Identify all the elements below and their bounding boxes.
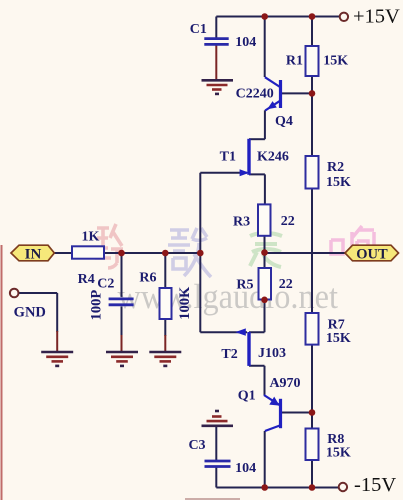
svg-text:IN: IN xyxy=(25,246,42,262)
wire R4 to gate node xyxy=(104,252,200,254)
terminal -15V xyxy=(339,483,347,491)
svg-text:C3: C3 xyxy=(188,438,205,453)
node top rail / R1 xyxy=(309,13,316,20)
resistor R8 15K xyxy=(306,429,319,461)
resistor R4 1K (horizontal) xyxy=(72,246,104,258)
svg-text:15K: 15K xyxy=(323,54,348,69)
wire R6 stem bottom xyxy=(164,319,166,336)
wire top rail +15V xyxy=(216,16,339,18)
svg-text:GND: GND xyxy=(14,305,46,321)
wire R3 bottom to R5 top xyxy=(264,236,266,268)
wire Q4 emitter vertical to T1 drain xyxy=(264,110,266,139)
watermark chinese glyph 1 (pink) xyxy=(95,224,123,268)
node Q4 base / R1-R2 xyxy=(309,90,316,97)
node output center R3-R5 xyxy=(261,249,268,256)
svg-text:15K: 15K xyxy=(326,175,351,190)
wire GND ground lead (maroon) xyxy=(56,331,58,351)
wire R2 bottom to R7 top xyxy=(311,189,313,314)
svg-text:R3: R3 xyxy=(233,215,250,230)
wire C2 stem bottom xyxy=(121,307,123,337)
wire R8 bottom to rail xyxy=(311,460,313,488)
left edge red artifact line xyxy=(1,245,3,500)
svg-text:R2: R2 xyxy=(327,160,344,175)
node bottom rail / R8 xyxy=(309,484,316,491)
wire Q1 base xyxy=(281,412,312,414)
JFET T1 K246 (N-channel) xyxy=(240,139,250,177)
svg-text:+15V: +15V xyxy=(353,6,400,28)
ground (C2) xyxy=(106,352,138,366)
wire Q4 collector vertical xyxy=(264,17,266,78)
svg-text:-15V: -15V xyxy=(354,474,396,496)
wire gate column xyxy=(199,173,201,332)
svg-text:15K: 15K xyxy=(326,445,351,460)
node input / gate column xyxy=(197,250,204,257)
svg-text:R5: R5 xyxy=(236,277,253,292)
wire C1 stem top xyxy=(215,17,217,38)
wire R5 bottom to T2 top tap xyxy=(249,300,265,333)
wire C1 to ground (maroon) xyxy=(215,46,217,80)
resistor R5 22 xyxy=(259,268,272,300)
ground (C3, inverted) xyxy=(202,411,234,426)
ground (GND terminal) xyxy=(41,352,73,366)
svg-text:1K: 1K xyxy=(81,229,99,244)
svg-text:C2: C2 xyxy=(97,277,114,292)
node R5 bottom / T2 xyxy=(261,297,268,304)
wire C3 stem bottom xyxy=(215,468,217,488)
wire R6 stem top xyxy=(164,253,166,288)
wire IN tag to R4 xyxy=(55,252,73,254)
resistor R2 15K xyxy=(306,156,319,189)
wire output node to OUT tag xyxy=(265,252,346,254)
svg-text:Q1: Q1 xyxy=(238,389,256,404)
node bottom rail / Q1 collector xyxy=(261,484,268,491)
wire T1 drain tap xyxy=(249,138,265,140)
svg-text:R6: R6 xyxy=(139,270,156,285)
node Q1 base / R7-R8 xyxy=(309,409,316,416)
watermark chinese glyph 4 (magenta) xyxy=(331,226,374,260)
tag IN xyxy=(11,245,54,262)
capacitor C3 104 xyxy=(205,461,231,467)
transistor Q4 C2240 (NPN) xyxy=(265,77,281,110)
node top rail / Q4 collector xyxy=(261,13,268,20)
resistor R7 15K xyxy=(306,313,319,345)
svg-text:104: 104 xyxy=(235,35,256,50)
capacitor C1 104 xyxy=(204,39,228,45)
ground (C1) xyxy=(202,80,234,94)
svg-text:R1: R1 xyxy=(286,54,303,69)
transistor Q1 A970 (PNP) xyxy=(264,395,281,431)
node input / R6 xyxy=(162,250,169,257)
watermark chinese glyph 2 (lavender) xyxy=(168,228,211,277)
terminal +15V xyxy=(340,13,348,21)
wire GND terminal lead xyxy=(19,293,58,332)
svg-text:OUT: OUT xyxy=(356,246,388,262)
resistor R6 100K xyxy=(160,288,172,319)
svg-text:T2: T2 xyxy=(221,347,237,362)
maroon ground lead segments xyxy=(57,46,216,352)
svg-text:Q4: Q4 xyxy=(275,114,293,129)
wire T2 gate xyxy=(200,331,247,333)
svg-text:C1: C1 xyxy=(190,22,207,37)
terminal GND xyxy=(10,289,19,298)
wire T1 gate xyxy=(200,172,247,174)
wire Q4 base xyxy=(281,92,312,94)
wire C2 stem top xyxy=(121,253,123,297)
svg-text:15K: 15K xyxy=(326,331,351,346)
svg-text:100K: 100K xyxy=(177,286,193,320)
svg-text:22: 22 xyxy=(281,214,295,229)
tag OUT xyxy=(345,245,399,262)
resistor R3 22 xyxy=(258,204,271,235)
wire bottom rail -15V xyxy=(216,487,338,489)
svg-text:22: 22 xyxy=(279,277,293,292)
wire C3 stem top xyxy=(215,427,217,460)
wire R7 bottom to R8 top xyxy=(311,345,313,429)
JFET T2 J103 (P-channel) xyxy=(235,328,249,366)
bottom edge red artifact line xyxy=(185,498,240,500)
wire C2 ground lead (maroon) xyxy=(121,335,123,351)
svg-text:A970: A970 xyxy=(269,376,300,391)
wire R1 bottom to R2 top xyxy=(311,76,313,156)
svg-text:100P: 100P xyxy=(89,290,105,321)
watermark chinese glyph 3 (green) xyxy=(250,224,282,267)
svg-text:K246: K246 xyxy=(257,150,289,165)
wire Q1 collector vertical xyxy=(264,431,266,488)
wire R1 top feed xyxy=(311,17,313,47)
capacitor C2 100P xyxy=(109,299,134,305)
node input / C2 xyxy=(118,250,125,257)
svg-text:104: 104 xyxy=(235,461,256,476)
wire R6 ground lead (maroon) xyxy=(164,335,166,351)
svg-text:C2240: C2240 xyxy=(236,87,274,102)
svg-text:J103: J103 xyxy=(258,346,286,361)
svg-text:R4: R4 xyxy=(78,272,95,287)
wire T1 source tap xyxy=(249,174,265,204)
svg-text:T1: T1 xyxy=(220,150,236,165)
resistor R1 15K xyxy=(306,46,319,76)
wire T2 bottom tap to Q1 emitter xyxy=(249,366,265,395)
ground (R6) xyxy=(149,352,181,366)
